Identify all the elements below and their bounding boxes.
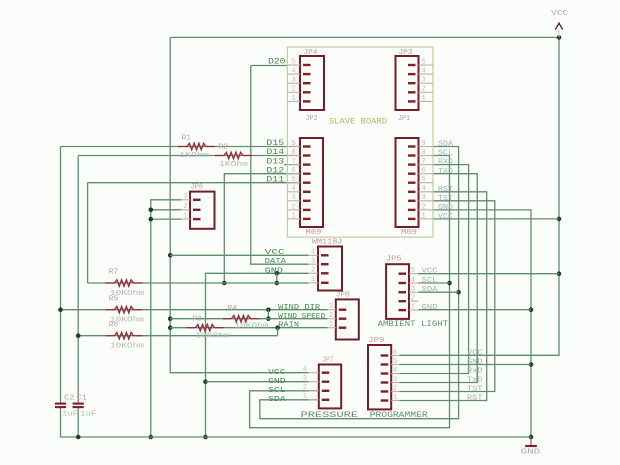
JP4 pin 5 stub	[287, 64, 300, 66]
JP3 pin 2 stub	[419, 91, 433, 93]
connector JP3 pin bar	[408, 91, 416, 93]
wire JP6 pin2	[151, 209, 181, 211]
connector JP1 body	[396, 138, 419, 227]
svg-text:10KOhm: 10KOhm	[235, 323, 269, 331]
net label RAIN	[278, 322, 299, 330]
svg-text:VCC: VCC	[265, 249, 286, 257]
JP1 pin 5 number	[422, 176, 426, 184]
wire D14 left vertical	[77, 156, 79, 403]
svg-text:GND: GND	[467, 359, 483, 367]
JP2 pin 3 number	[292, 194, 296, 202]
JP9 pin 6 stub	[391, 355, 399, 357]
svg-text:SCL: SCL	[268, 387, 286, 395]
wire TST net	[400, 201, 495, 392]
svg-text:RAIN: RAIN	[278, 322, 299, 330]
JP3 pin 3 stub	[419, 82, 433, 84]
svg-text:6: 6	[422, 167, 426, 175]
JP8 pin 3 stub	[328, 309, 336, 311]
signal VCC at JP1	[438, 213, 454, 221]
signal SCL at JP5	[422, 277, 439, 285]
JP9 pin 3 number	[393, 376, 397, 384]
JP8 pin 2 stub	[328, 318, 336, 320]
value C1 1uF	[80, 411, 97, 419]
value R3 10KOhm	[196, 333, 230, 341]
wire JP5 GND row	[419, 309, 532, 311]
svg-text:3: 3	[292, 194, 296, 202]
net label D20	[268, 57, 286, 66]
svg-text:5: 5	[422, 176, 426, 184]
svg-text:3: 3	[411, 286, 415, 294]
JP2 pin 4 number	[292, 185, 296, 193]
svg-text:M09: M09	[401, 229, 417, 237]
JP9 pin 4 stub	[391, 373, 399, 375]
junction R4 right	[266, 316, 271, 321]
connector JP1 pin bar	[408, 200, 416, 202]
connector JP2 pin bar	[303, 145, 311, 147]
net label D14	[266, 148, 284, 157]
svg-text:RST: RST	[438, 186, 454, 194]
JP2 pin 9 number	[292, 140, 296, 148]
JP3 pin 5 stub	[419, 64, 433, 66]
wire D15 left vertical	[60, 147, 62, 403]
net label GND at JP7	[268, 378, 286, 386]
JP1 pin 7 stub	[419, 164, 433, 166]
svg-text:5: 5	[292, 58, 296, 66]
connector U1 WM11BJ pin bar	[321, 263, 329, 265]
label PRESSURE	[301, 411, 359, 420]
JP2 pin 7 number	[292, 158, 296, 166]
connector JP3 body	[396, 56, 419, 110]
net label D15	[266, 139, 284, 148]
svg-text:SCL: SCL	[422, 277, 439, 285]
label C2	[64, 394, 75, 402]
svg-text:1: 1	[329, 321, 333, 329]
net label SCL at JP7	[268, 387, 286, 395]
wire RST net	[400, 192, 487, 401]
wire SCL net	[250, 156, 450, 428]
JP8 pin 1 stub	[328, 327, 336, 329]
label R6	[109, 321, 119, 329]
connector JP5 pin bar	[399, 300, 407, 302]
svg-text:JP5: JP5	[386, 256, 402, 264]
junction VCC WM row	[168, 253, 173, 258]
label JP6	[191, 184, 204, 192]
connector JP1 pin bar	[408, 218, 416, 220]
wire D11 left vertical	[87, 183, 89, 283]
junction SDA JP5	[456, 290, 461, 295]
junction GND JP5 row	[529, 307, 534, 312]
JP1 pin 8 number	[422, 149, 426, 157]
svg-text:4: 4	[303, 366, 307, 374]
svg-text:1uF: 1uF	[80, 411, 97, 419]
JP1 pin 3 stub	[419, 200, 433, 202]
wire WM GND row	[206, 273, 309, 437]
svg-text:VCC: VCC	[467, 350, 483, 358]
label JP9	[368, 337, 385, 345]
connector JP9 pin bar	[381, 363, 389, 365]
JP2 pin 1 number	[292, 212, 296, 220]
svg-text:8: 8	[292, 149, 296, 157]
connector JP5 pin bar	[399, 291, 407, 293]
svg-text:1: 1	[184, 213, 188, 221]
wire D13 stub	[284, 164, 300, 166]
label R2	[219, 144, 229, 152]
junction RAIN R6 jog	[275, 325, 280, 330]
label R7	[109, 268, 119, 276]
JP2 pin 4 stub	[287, 191, 300, 193]
svg-text:2: 2	[422, 203, 426, 211]
svg-text:R5: R5	[109, 295, 119, 303]
JP2 pin 2 stub	[287, 209, 300, 211]
value R4 10KOhm	[235, 323, 269, 331]
signal VCC at JP9	[467, 350, 483, 358]
resistor R4 zigzag	[223, 318, 232, 320]
svg-text:JP3: JP3	[399, 49, 414, 57]
signal GND at JP9	[467, 359, 483, 367]
JP1 pin 6 number	[422, 167, 426, 175]
svg-text:4: 4	[311, 249, 315, 257]
svg-text:2: 2	[411, 295, 415, 303]
JP1 pin 9 stub	[419, 146, 433, 148]
svg-text:6: 6	[292, 167, 296, 175]
svg-text:1: 1	[422, 95, 426, 103]
svg-text:10KOhm: 10KOhm	[110, 343, 144, 351]
wire RXD net	[400, 165, 469, 374]
connector JP7 pin bar	[322, 390, 330, 392]
svg-text:SDA: SDA	[422, 286, 439, 294]
signal VCC at JP5	[422, 268, 439, 276]
svg-text:4: 4	[292, 68, 296, 76]
net label DATA at WM	[265, 258, 287, 266]
svg-text:DATA: DATA	[265, 258, 287, 266]
JP5 pin 3 stub	[409, 291, 419, 293]
connector JP9 pin bar	[381, 381, 389, 383]
svg-text:PROGRAMMER: PROGRAMMER	[370, 411, 428, 420]
wire GND net right	[433, 210, 531, 437]
wire JP5 VCC row	[419, 273, 560, 275]
connector JP3 pin bar	[408, 100, 416, 102]
junction VCC JP1 row	[557, 217, 562, 222]
svg-text:4: 4	[393, 367, 397, 375]
JP9 pin 5 stub	[391, 364, 399, 366]
JP4 pin 2 number	[292, 86, 296, 94]
junction JP6 rail	[149, 435, 154, 440]
svg-text:1: 1	[422, 212, 426, 220]
svg-text:JP7: JP7	[322, 357, 333, 365]
resistor R5	[106, 307, 143, 313]
JP3 pin 1 number	[422, 95, 426, 103]
connector JP7 pin bar	[322, 399, 330, 401]
connector JP9 body	[368, 345, 391, 409]
svg-text:2: 2	[422, 86, 426, 94]
JP4 pin 1 number	[292, 95, 296, 103]
wire SDA net	[260, 147, 459, 419]
JP3 pin 5 number	[422, 58, 426, 66]
signal GND at JP1	[438, 204, 454, 212]
WM pin 4 number	[311, 249, 315, 257]
value C2 1uF	[62, 411, 78, 419]
junction VCC R4	[168, 316, 173, 321]
junction VCC JP5 row	[557, 271, 562, 276]
svg-text:3: 3	[393, 376, 397, 384]
connector JP2 pin bar	[303, 191, 311, 193]
resistor R1 zigzag	[178, 146, 187, 148]
label JP4	[304, 49, 319, 57]
JP6 pin 3 stub	[181, 199, 190, 201]
net label D12	[266, 166, 284, 175]
label R3	[193, 315, 203, 323]
svg-text:3: 3	[311, 258, 315, 266]
capacitor C2	[55, 404, 66, 408]
svg-text:GND: GND	[265, 267, 284, 275]
JP4 pin 3 number	[292, 77, 296, 85]
junction DIR jog top	[266, 307, 271, 312]
junction JP7 GND	[203, 379, 208, 384]
svg-text:GND: GND	[268, 378, 286, 386]
connector JP1 pin bar	[408, 154, 416, 156]
capacitor C1	[73, 404, 84, 408]
svg-text:TxD: TxD	[467, 377, 483, 385]
connector JP1 pin bar	[408, 191, 416, 193]
JP4 pin 5 number	[292, 58, 296, 66]
junction rail 205	[203, 435, 208, 440]
svg-text:3: 3	[422, 194, 426, 202]
wire JP6 pin1	[151, 218, 181, 220]
wire D11 row	[88, 182, 300, 184]
JP7 pin 4 number	[303, 366, 307, 374]
svg-text:1: 1	[393, 394, 397, 402]
signal TST at JP1	[438, 195, 454, 203]
svg-text:SDA: SDA	[438, 141, 454, 149]
connector JP4 pin bar	[303, 100, 311, 102]
wire VCC left vertical	[170, 37, 308, 372]
connector JP8 pin bar	[339, 318, 347, 320]
JP9 pin 1 stub	[391, 400, 399, 402]
JP1 pin 6 stub	[419, 173, 433, 175]
svg-text:5: 5	[393, 358, 397, 366]
svg-text:4: 4	[422, 68, 426, 76]
svg-text:AMBIENT LIGHT: AMBIENT LIGHT	[378, 320, 449, 329]
svg-text:2: 2	[311, 267, 315, 275]
svg-text:GND: GND	[521, 449, 541, 457]
JP9 pin 6 number	[393, 349, 397, 357]
svg-text:4: 4	[292, 185, 296, 193]
svg-text:4: 4	[422, 185, 426, 193]
junction D12 R7 row	[222, 281, 227, 286]
net label GND at WM	[265, 267, 284, 275]
svg-text:JP4: JP4	[304, 49, 319, 57]
wire R7 row	[88, 282, 309, 284]
connector JP2 pin bar	[303, 218, 311, 220]
svg-text:D11: D11	[266, 175, 284, 184]
connector JP4 pin bar	[303, 73, 311, 75]
connector JP4 pin bar	[303, 82, 311, 84]
value R7 10KOhm	[110, 290, 144, 298]
wire D12 row	[224, 174, 300, 283]
wire JP6 pin3	[151, 200, 181, 437]
connector JP1 pin bar	[408, 181, 416, 183]
JP4 pin 2 stub	[287, 91, 300, 93]
wire JP9 GND row	[400, 364, 532, 366]
connector JP4 pin bar	[303, 91, 311, 93]
svg-text:GND: GND	[438, 204, 454, 212]
JP1 pin 1 number	[422, 212, 426, 220]
connector JP8 pin bar	[339, 327, 347, 329]
svg-text:TST: TST	[438, 195, 454, 203]
svg-text:1KOhm: 1KOhm	[219, 161, 248, 169]
wire C1 bottom	[77, 408, 79, 437]
junction JP6 pin1	[149, 217, 154, 222]
WM pin 1 number	[311, 276, 315, 284]
signal RXD at JP1	[438, 159, 454, 167]
connector JP1 pin bar	[408, 163, 416, 165]
JP7 pin 4 stub	[309, 372, 319, 374]
connector JP6 pin bar	[193, 209, 201, 211]
junction WM GND jog	[275, 271, 280, 276]
svg-text:2: 2	[303, 384, 307, 392]
svg-text:R4: R4	[228, 305, 238, 313]
wire VCC right vertical	[400, 37, 560, 355]
connector JP9 pin bar	[381, 399, 389, 401]
wire RAIN row	[170, 327, 327, 329]
value R2 1KOhm	[219, 161, 248, 169]
svg-text:RXD: RXD	[438, 159, 454, 167]
JP6 pin 2 stub	[181, 209, 190, 211]
power symbol VCC	[555, 23, 562, 37]
wire WIND SPEED row	[170, 318, 327, 320]
JP9 pin 5 number	[393, 358, 397, 366]
JP6 pin 1 stub	[181, 218, 190, 220]
JP5 pin 1 number	[411, 304, 415, 312]
connector JP7 pin bar	[322, 372, 330, 374]
svg-text:9: 9	[292, 140, 296, 148]
connector JP2 pin bar	[303, 209, 311, 211]
JP9 pin 2 number	[393, 385, 397, 393]
svg-text:VCC: VCC	[268, 369, 286, 377]
svg-text:8: 8	[422, 149, 426, 157]
JP7 pin 1 stub	[309, 399, 319, 401]
label PROGRAMMER	[370, 411, 428, 420]
JP2 pin 2 number	[292, 203, 296, 211]
svg-text:2: 2	[292, 86, 296, 94]
signal TxD at JP9	[467, 377, 483, 385]
resistor R6 zigzag	[106, 335, 115, 337]
wire JP7 GND row	[206, 381, 309, 383]
svg-text:1: 1	[411, 304, 415, 312]
JP5 pin 5 stub	[409, 273, 419, 275]
label SLAVE BOARD	[329, 117, 387, 127]
resistor R3 zigzag	[187, 327, 196, 329]
JP3 pin 4 number	[422, 68, 426, 76]
connector JP1 pin bar	[408, 172, 416, 174]
WM pin 2 number	[311, 267, 315, 275]
svg-text:RxD: RxD	[467, 368, 483, 376]
JP6 pin 2 number	[184, 203, 188, 211]
resistor R7	[106, 280, 143, 286]
junction R7 row pin1	[275, 281, 280, 286]
resistor R3	[187, 325, 224, 331]
net label D11	[266, 175, 284, 184]
svg-text:2: 2	[292, 203, 296, 211]
svg-text:R6: R6	[109, 321, 119, 329]
net label SDA at JP7	[268, 396, 286, 404]
svg-text:3: 3	[184, 193, 188, 201]
connector JP4 body	[300, 56, 324, 110]
svg-text:1: 1	[292, 212, 296, 220]
svg-text:VCC: VCC	[551, 10, 569, 18]
signal RST at JP1	[438, 186, 454, 194]
wire D14 row	[78, 155, 300, 157]
JP3 pin 1 stub	[419, 100, 433, 102]
svg-text:3: 3	[422, 77, 426, 85]
wire C2 bottom	[60, 408, 62, 437]
label JP8	[336, 291, 350, 299]
JP8 pin 3 number	[329, 303, 333, 311]
connector JP5 pin bar	[399, 282, 407, 284]
svg-text:3: 3	[292, 77, 296, 85]
value R6 10KOhm	[110, 343, 144, 351]
JP8 pin 1 number	[329, 321, 333, 329]
label AMBIENT LIGHT	[378, 320, 449, 329]
wire WIND DIR row	[61, 309, 328, 311]
wire VCC top rail	[170, 36, 559, 38]
net label WIND SPEED	[278, 313, 326, 321]
net label VCC at JP7	[268, 369, 286, 377]
svg-text:D13: D13	[266, 157, 284, 166]
junction GND bottom	[529, 435, 534, 440]
JP2 pin 7 stub	[287, 164, 300, 166]
svg-text:D20: D20	[268, 57, 286, 66]
connector JP2 pin bar	[303, 200, 311, 202]
JP4 pin 4 number	[292, 68, 296, 76]
JP2 pin 1 stub	[287, 218, 300, 220]
JP4 pin 4 stub	[287, 73, 300, 75]
JP7 pin 3 stub	[309, 381, 319, 383]
connector JP6 body	[190, 192, 215, 229]
net label VCC at WM	[265, 249, 286, 257]
junction VCC arrow	[557, 35, 562, 40]
signal RST at JP9	[467, 395, 483, 403]
label JP7	[322, 357, 333, 365]
svg-text:1: 1	[303, 393, 307, 401]
svg-text:1: 1	[292, 95, 296, 103]
JP2 pin 6 stub	[287, 173, 300, 175]
JP7 pin 2 stub	[309, 390, 319, 392]
JP6 pin 1 number	[184, 213, 188, 221]
svg-text:R2: R2	[219, 144, 229, 152]
JP2 pin 8 number	[292, 149, 296, 157]
connector JP9 pin bar	[381, 390, 389, 392]
svg-text:5: 5	[422, 58, 426, 66]
net label D13	[266, 157, 284, 166]
junction R6 left	[76, 333, 81, 338]
resistor R5 zigzag	[106, 309, 115, 311]
wire JP5 SDA row	[419, 291, 459, 293]
svg-text:3: 3	[303, 375, 307, 383]
svg-text:4: 4	[411, 276, 415, 284]
svg-text:10KOhm: 10KOhm	[196, 333, 230, 341]
JP1 pin 4 stub	[419, 191, 433, 193]
junction JP6 pin2	[149, 208, 154, 213]
JP2 pin 5 stub	[287, 182, 300, 184]
JP2 pin 5 number	[292, 176, 296, 184]
JP9 pin 4 number	[393, 367, 397, 375]
connector U1 WM11BJ pin bar	[321, 282, 329, 284]
connector JP2 pin bar	[303, 154, 311, 156]
JP2 pin 9 stub	[287, 146, 300, 148]
svg-text:D14: D14	[266, 148, 284, 157]
svg-text:WIND DIR: WIND DIR	[278, 304, 321, 312]
